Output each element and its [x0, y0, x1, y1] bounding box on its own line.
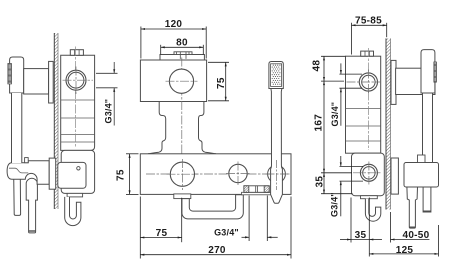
valve body (right view) — [346, 56, 381, 153]
svg-text:75: 75 — [116, 169, 127, 181]
svg-text:125: 125 — [396, 245, 414, 256]
svg-text:167: 167 — [314, 114, 325, 132]
dimension 75 bar height — [126, 154, 139, 195]
holder ring — [268, 165, 286, 183]
vertical chain dimension 48 / 167 / 35 — [321, 56, 353, 193]
spray face knurl (right view) — [434, 62, 437, 82]
dimension 40-50 — [391, 212, 430, 243]
G3/4 dimension (left view) — [96, 62, 118, 126]
hand shower handle (front view) — [271, 88, 283, 203]
dimension G3/4 bottom — [242, 196, 278, 242]
svg-text:G3/4": G3/4" — [104, 99, 114, 124]
svg-text:35: 35 — [315, 176, 326, 188]
in-wall valve body (left view) — [61, 55, 95, 150]
vertical centerline — [181, 58, 183, 191]
J-shaped outlet elbow (left view) — [65, 197, 81, 226]
centerline (right view) — [368, 48, 370, 150]
thermostat knob circle — [166, 69, 198, 93]
hand shower handle front part (left view) — [12, 93, 22, 163]
holder arm (left view) — [24, 69, 49, 94]
dimension 75 box height — [208, 62, 229, 101]
left control knob circle — [167, 159, 199, 190]
hand shower head (right view) — [421, 50, 435, 93]
dimension G3/4 top port (right view) — [339, 63, 362, 125]
bottom bar end assembly (left view) — [7, 161, 49, 185]
svg-text:75-85: 75-85 — [355, 16, 382, 27]
svg-text:40-50: 40-50 — [402, 230, 429, 241]
J-shaped outlet elbow (right view) — [365, 199, 380, 222]
bar centerline — [146, 173, 290, 175]
cap on body top (left view) — [70, 50, 83, 56]
bottom bar end assembly (right view) — [404, 163, 439, 188]
dimension 75-85 — [352, 23, 387, 55]
hand shower head (left view) — [10, 57, 24, 93]
bottom wall plate (left view) — [49, 158, 56, 189]
outlet port G3/4 bottom (right view) — [353, 162, 382, 185]
hose tube A (right view) — [407, 184, 418, 228]
dimension 35 bottom — [340, 198, 382, 257]
holder escutcheon inner plate (left view) — [58, 162, 86, 188]
svg-text:48: 48 — [312, 60, 323, 72]
dimension 75 bottom — [140, 197, 181, 259]
dimension G3/4 bottom port (right view) — [340, 156, 364, 216]
cap on body top (right view) — [361, 51, 374, 56]
inlet port G3/4 top (right view) — [347, 70, 382, 95]
in-wall block (right view) — [352, 153, 385, 196]
hand shower handle lower (left view tube1) — [14, 176, 21, 215]
svg-text:270: 270 — [208, 245, 226, 256]
block foot (right view) — [361, 196, 378, 199]
in-wall block (left view) — [61, 150, 94, 193]
dimension 120 — [141, 27, 206, 59]
shower centerline — [266, 160, 289, 190]
holder bracket (hatched) — [244, 186, 269, 193]
wall section (left view) — [54, 33, 58, 209]
thermostat box — [140, 60, 206, 102]
bottom wall plate (right view) — [391, 158, 398, 194]
wall plate upper (right view) — [391, 60, 396, 104]
holder bracket lip — [242, 192, 272, 195]
hand shower head (front view) — [269, 62, 283, 89]
svg-text:80: 80 — [176, 38, 188, 49]
main horizontal bar body — [140, 154, 291, 195]
svg-text:G3/4": G3/4" — [330, 192, 340, 217]
dimension 80 — [161, 45, 204, 55]
holder clamp tab (right view) — [418, 155, 426, 163]
svg-text:75: 75 — [156, 228, 168, 239]
svg-text:35: 35 — [355, 230, 367, 241]
top escutcheon cap — [160, 52, 204, 60]
tube B hand shower hose stub (right view) — [423, 184, 431, 212]
inlet port G3/4 circle (left view) — [63, 67, 94, 95]
spray face knurl (left view) — [8, 64, 11, 84]
spray dots — [272, 65, 281, 85]
svg-text:G3/4": G3/4" — [214, 228, 239, 238]
svg-text:75: 75 — [216, 77, 227, 89]
svg-text:120: 120 — [165, 19, 183, 30]
dimension 270 — [140, 197, 291, 259]
screw (left view) — [77, 167, 80, 170]
block foot (left view) — [67, 193, 83, 197]
U handle foot — [174, 194, 191, 199]
holder arm (right view) — [396, 68, 435, 94]
diverter knob circle — [226, 162, 250, 186]
dimension 125 — [369, 225, 438, 257]
wall section (right view) — [386, 38, 391, 209]
hand shower handle (right view) — [423, 93, 433, 163]
hose connection tube (left view tube2) — [26, 178, 37, 233]
holder clamp tab (left view) — [25, 158, 29, 163]
holder wall plate (left view) — [49, 61, 54, 103]
U handle — [182, 195, 243, 219]
centerline of body (left view) — [74, 47, 76, 149]
svg-text:G3/4": G3/4" — [330, 102, 340, 127]
neck risers — [148, 102, 216, 154]
